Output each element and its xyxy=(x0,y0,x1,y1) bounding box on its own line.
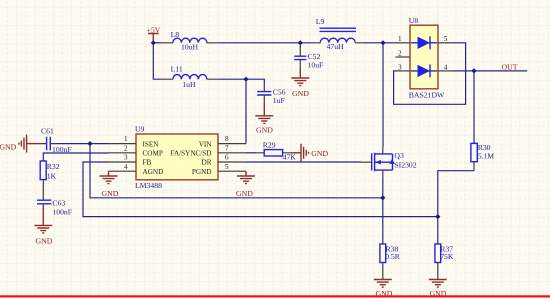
svg-text:U9: U9 xyxy=(135,125,145,134)
svg-text:L11: L11 xyxy=(171,64,183,73)
wire ISEN sense (wire1) xyxy=(90,144,383,198)
transistor Q3 SI2302 xyxy=(361,147,417,178)
wire L8 to C52 junction to L9 xyxy=(219,42,312,44)
wire COMP to R32 xyxy=(43,153,108,161)
svg-text:PGND: PGND xyxy=(192,168,212,176)
U9 pin 4 AGND xyxy=(109,170,137,172)
junction node divider xyxy=(435,214,440,219)
U8 pin 1 xyxy=(396,42,411,44)
svg-text:OUT: OUT xyxy=(502,63,518,72)
IC U9 LM3488 xyxy=(135,125,218,190)
U9 pin 8 VIN xyxy=(218,143,246,145)
svg-text:0.5R: 0.5R xyxy=(385,252,401,261)
svg-text:7: 7 xyxy=(225,144,229,152)
U8 pin 4 xyxy=(438,70,453,72)
U8 pin 2 xyxy=(396,56,411,58)
ground for R38 xyxy=(374,280,393,299)
svg-text:1K: 1K xyxy=(47,171,57,180)
svg-text:5: 5 xyxy=(444,35,448,43)
svg-text:4: 4 xyxy=(124,163,128,171)
wire pin7 to R29 xyxy=(246,152,256,154)
svg-text:COMP: COMP xyxy=(143,150,163,158)
svg-text:C61: C61 xyxy=(41,127,54,136)
svg-text:10uH: 10uH xyxy=(181,43,199,52)
junction node sense/R38 xyxy=(380,195,385,200)
svg-text:GND: GND xyxy=(102,189,119,198)
U9 pin 3 FB xyxy=(109,161,137,163)
power port GND at R29 xyxy=(291,144,329,162)
svg-text:GND: GND xyxy=(292,89,309,98)
svg-text:47uH: 47uH xyxy=(327,42,345,51)
inductor L8 xyxy=(161,30,219,52)
resistor R32 xyxy=(40,161,60,200)
svg-text:SI2302: SI2302 xyxy=(394,161,416,170)
U9 pin 6 DR xyxy=(218,161,246,163)
U9 pin 1 ISEN xyxy=(109,143,137,145)
ground for PGND xyxy=(236,171,255,198)
svg-text:10uF: 10uF xyxy=(308,60,324,69)
junction node VIN tap xyxy=(243,77,248,82)
svg-text:AGND: AGND xyxy=(143,168,164,176)
resistor R37 xyxy=(435,244,454,279)
power port +5V xyxy=(147,26,161,43)
wire U8 pin4 to OUT xyxy=(453,70,528,72)
wire L9 to U8 pin1 xyxy=(364,42,396,44)
U9 pin 7 FA/SYNC/SD xyxy=(218,152,246,154)
svg-text:L9: L9 xyxy=(316,17,325,26)
svg-text:LM3488: LM3488 xyxy=(135,181,162,190)
wire drain vertical xyxy=(382,43,384,147)
junction node C52 tap xyxy=(298,40,303,45)
svg-text:FB: FB xyxy=(143,159,152,167)
wire C52 junction stub xyxy=(299,43,301,48)
svg-text:GND: GND xyxy=(0,143,17,152)
svg-text:+5V: +5V xyxy=(147,26,161,35)
svg-text:6: 6 xyxy=(225,154,229,162)
junction node OUT xyxy=(471,68,476,73)
svg-text:GND: GND xyxy=(311,149,328,158)
U9 pin 5 PGND xyxy=(218,170,246,172)
svg-text:2: 2 xyxy=(124,144,128,152)
inductor L9 xyxy=(312,17,365,51)
capacitor C56 xyxy=(257,84,286,105)
junction node top-left xyxy=(151,40,156,45)
svg-text:1: 1 xyxy=(398,35,402,43)
wire L11 to C56 corner xyxy=(219,79,265,84)
wire ISEN C61 net xyxy=(56,143,109,145)
svg-text:GND: GND xyxy=(256,126,273,135)
junction node drain/U8 xyxy=(380,40,385,45)
inductor L11 xyxy=(161,64,219,89)
capacitor C52 xyxy=(294,48,323,69)
svg-text:R32: R32 xyxy=(47,162,60,171)
ground for R37 xyxy=(429,280,447,299)
svg-text:R29: R29 xyxy=(263,140,276,149)
svg-text:FA/SYNC/SD: FA/SYNC/SD xyxy=(170,150,211,158)
ground for AGND xyxy=(100,171,119,198)
svg-text:47K: 47K xyxy=(283,153,297,162)
svg-text:GND: GND xyxy=(236,189,253,198)
ground for C52 xyxy=(291,68,309,98)
svg-text:BAS21DW: BAS21DW xyxy=(409,90,445,99)
wire U8 pin5 loop to pin3 xyxy=(394,43,466,105)
svg-text:C63: C63 xyxy=(52,199,65,208)
U8 pin 3 xyxy=(396,70,411,72)
svg-text:DR: DR xyxy=(202,159,212,167)
svg-text:2: 2 xyxy=(398,49,402,57)
power port GND left xyxy=(0,135,41,153)
wire +5V down to L11 xyxy=(153,43,161,79)
svg-text:ISEN: ISEN xyxy=(143,140,160,148)
resistor R30 xyxy=(471,143,494,171)
diode D2 of U8 xyxy=(411,64,437,77)
svg-text:L8: L8 xyxy=(171,30,180,39)
svg-text:1uH: 1uH xyxy=(182,80,196,89)
capacitor C63 xyxy=(37,199,72,217)
wire DR to gate xyxy=(246,161,361,163)
svg-text:8: 8 xyxy=(225,135,229,143)
svg-text:U8: U8 xyxy=(409,16,419,25)
U8 pin 5 xyxy=(438,42,453,44)
resistor R29 xyxy=(256,140,296,161)
ground for C63 xyxy=(34,208,52,246)
resistor R38 xyxy=(380,244,401,279)
capacitor C61 xyxy=(41,127,72,154)
svg-text:1: 1 xyxy=(124,135,128,143)
ground for C56 xyxy=(255,103,273,135)
svg-text:GND: GND xyxy=(36,237,53,246)
wire top rail +5V to L8 xyxy=(153,42,161,44)
diode array U8 xyxy=(409,16,445,99)
svg-text:5.1M: 5.1M xyxy=(478,151,495,160)
red sheet border bottom xyxy=(0,295,550,297)
svg-text:VIN: VIN xyxy=(199,140,213,148)
wire OUT junction down to R30 xyxy=(473,71,475,143)
svg-text:100nF: 100nF xyxy=(52,208,72,217)
svg-text:5: 5 xyxy=(225,163,229,171)
wire R30 bottom to divider xyxy=(438,171,474,244)
svg-text:Q3: Q3 xyxy=(394,151,404,160)
wire FB (wire2) xyxy=(83,162,438,217)
svg-text:100nF: 100nF xyxy=(52,145,72,154)
svg-text:75K: 75K xyxy=(440,252,454,261)
svg-text:1uF: 1uF xyxy=(273,96,285,105)
wire VIN vertical xyxy=(245,79,247,143)
diode D1 of U8 xyxy=(411,36,437,49)
svg-text:3: 3 xyxy=(398,63,402,71)
wire source down to R38 xyxy=(382,178,384,244)
svg-text:4: 4 xyxy=(444,63,448,71)
svg-text:3: 3 xyxy=(124,154,128,162)
U9 pin 2 COMP xyxy=(109,152,137,154)
junction node C61/ISEN xyxy=(87,141,92,146)
